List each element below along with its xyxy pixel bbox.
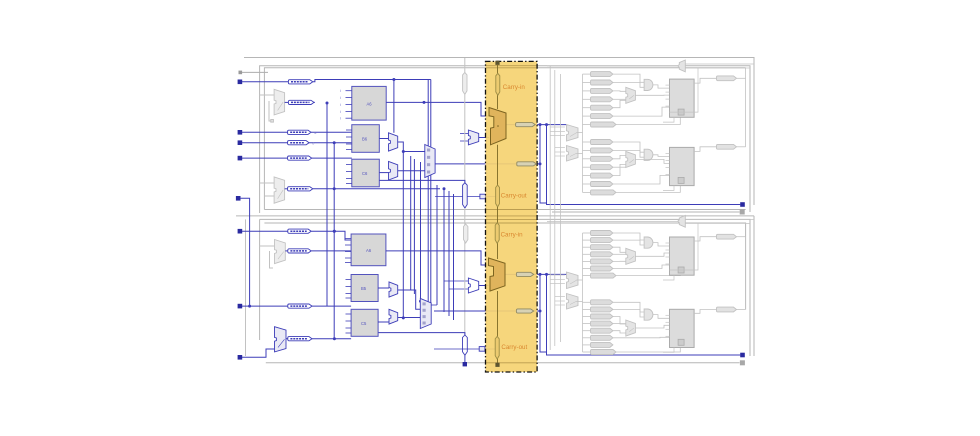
top wire capB0-AND2 [613,142,644,152]
top in capsule B6 [591,190,617,195]
LUT A pin 3 [340,110,352,114]
bottom out capsule 1 [717,234,737,239]
LUT D pin 1 [345,244,351,246]
LUT D pin 2 [345,251,351,253]
gray stub MR2 156 [555,155,565,157]
LUT E pin 2 [346,293,352,295]
top clock drop [670,68,699,113]
vertical net v3b [420,162,422,301]
LUT C O5 wire [379,180,465,182]
bottom in capsule B6 stub [583,344,591,346]
buffer A4 [288,141,310,145]
bottom FF2 pin 2 [666,328,670,330]
carry chain wire seg7 [497,359,499,363]
bottom wire capB5-FF2 [613,336,670,339]
top FF2 bottom stub [663,186,674,191]
wire J3 [242,349,275,357]
input pin I3 [238,140,243,145]
bottom MUX1 out [635,253,669,256]
gray stub MR2b 296.5 [555,296,565,298]
bottom in capsule B0 [591,300,613,305]
gray stub MR2b 301 [555,300,565,302]
top FF2 pin 3 [666,173,670,175]
junction n1 [392,78,395,81]
bottom clock drop [670,223,699,270]
top in capsule B4 stub [583,175,591,177]
bottom in capsule B1 stub [583,308,591,310]
top out capsule 2 wire [737,146,746,148]
vertical net v2 [410,156,412,290]
top FF2 pin 0 [666,152,670,154]
buffer A3 [288,130,311,134]
bottom FF1 pin 0 [666,242,670,244]
input pin I2 [238,130,243,135]
V3 out stub [464,355,466,362]
vertical net v5 [443,189,445,312]
LUT B out wire [379,138,388,140]
LUT F pin 1 [346,320,352,322]
FM1 out wire [479,137,489,139]
top FF2 pin 2 [666,166,670,168]
top input bus vertical [582,74,584,192]
M2 out wire [398,170,425,172]
bottom FDRE flip-flop 1 [670,237,695,275]
bottom FDRE flip-flop 2 [670,309,695,347]
svg-text:a: a [315,131,317,135]
top in capsule A6 stub [583,124,591,126]
right frame vertical c [745,237,747,310]
wire B3 out [312,305,351,307]
bottom FF2 pin 0 [666,314,670,316]
carry-in capsule top [496,73,500,95]
bottom wire capB2-MUX2 [613,317,626,325]
LUT B pin 2 [346,143,352,145]
bottom wire capA0-AND1 [613,233,644,240]
bottom AND gate 1 [644,237,653,248]
gray vertical low [464,208,466,335]
wire I1 [242,81,288,83]
top in capsule B1 stub [583,149,591,151]
input pin I5 [236,196,241,201]
bottom input bus vertical [582,233,584,352]
NL1 select wire [270,251,274,268]
top MUX1 out [635,94,669,96]
vertical net v6 [448,191,450,316]
carry chain wire seg6 [497,291,499,336]
LUT F pin 3 [346,332,352,334]
bottom out capsule 2 [717,307,737,312]
LUT F6LUT label [361,321,367,326]
top in capsule A1 [591,80,613,85]
svg-text:C6: C6 [362,171,368,176]
junction fb1 a [326,102,329,105]
LUT A6LUT [352,86,386,120]
vertical net v4 [436,185,438,305]
svg-text:B6: B6 [362,137,368,142]
LUT C pin 3 [346,183,352,185]
top FF1 clk notch [678,109,684,115]
gray stub into mux ML2a [260,182,275,184]
bottom in capsule B1 [591,307,613,312]
top in capsule A5 [591,114,613,119]
top in capsule B2 [591,156,613,161]
net wire n1 top [313,80,431,82]
bottom in capsule A3 stub [583,253,591,255]
band crossing rail 5 [486,218,538,220]
buffer B2 [288,249,311,253]
LUT C6LUT label [362,171,368,176]
top wire capB6-FF2 [616,186,680,193]
bottom clock out wire 2 [685,222,750,224]
junction F7 join [539,162,542,165]
junction v3b [419,300,422,303]
top in capsule A3 [591,97,613,102]
top in capsule A4 [591,105,613,110]
band crossing rail 1 [486,65,538,67]
LUT E pin 3 [346,297,352,299]
bottom wire capB1-AND2 [613,309,644,317]
svg-text:A6: A6 [367,102,373,107]
top FF1 pin 2 [666,98,670,100]
label Carry-in bottom [501,231,524,238]
bottom in capsule A0 [591,230,613,235]
label Carry-out top [501,193,527,200]
svg-text:Carry-in: Carry-in [503,84,526,91]
top in capsule A5 stub [583,115,591,117]
top wire capB5-FF2 [613,175,670,184]
carry O drop [540,125,547,203]
T1 in wire [435,196,480,198]
top in capsule B0 stub [583,141,591,143]
bottom in capsule A4 stub [583,260,591,262]
band crossing rail 3 [486,209,538,211]
ML1 out wire [285,101,289,103]
bottom in capsule A1 stub [583,239,591,241]
gray stub MR1 131.5 [550,131,565,133]
LUT C6LUT [352,159,380,187]
LUT B pin 1 [346,136,352,138]
bottom route mux MR2 [567,294,579,310]
gray stub MR2 147.5 [555,147,565,149]
top in capsule A4 stub [583,107,591,109]
junction fb2 a [333,141,336,144]
bottom in capsule B6 [591,342,613,347]
pin label b [313,142,315,146]
gray stub into mux ML1 [260,94,275,96]
LUT C pin 0 [346,164,352,166]
gray stub MR1b 279.5 [550,279,565,281]
top MR1 out [576,132,582,134]
LUT F6LUT [351,309,378,336]
svg-text:B5: B5 [361,286,367,291]
right frame vertical a [745,78,747,147]
mux N1 [389,282,398,297]
top AND gate 1 [644,79,653,90]
bottom wire capB3-MUX2 [613,323,626,325]
top in capsule A1 stub [583,82,591,84]
right frame corner segment [745,68,747,79]
carry-out pin bottom [495,363,499,367]
bottom FF2 out wire [694,310,716,314]
wire B4 out [312,338,351,340]
top wire capA2-MUX [613,90,626,92]
wire J1 [242,230,288,232]
vertical net v1 [402,152,404,318]
LUT A pin 1 [340,96,352,100]
carry O capsule top [516,123,536,127]
input pin J1 [238,229,243,234]
top wire capB4-MUX2 [613,164,626,175]
LUT F pin 0 [346,313,352,315]
wire I4 [242,157,288,159]
band crossing rail 7 [486,362,538,364]
wire A3 to LUT [311,131,352,133]
wire A6 long [313,188,440,190]
gray stub MR2b 305 [555,304,565,306]
carry second capsule top [517,162,537,166]
bottom wire capA1-AND1 [613,240,644,245]
long vertical feedback 1 [326,103,328,306]
clk input pin top [239,71,243,75]
bottom in capsule A5 stub [583,268,591,270]
wire A4 to LUT [309,142,352,144]
LUT B6LUT label [362,137,368,142]
carry feed mux FM2 [468,278,478,293]
band crossing rail 4 [486,215,538,217]
bottom FF2 bottom stub [663,348,674,353]
rail out wire B [547,274,741,355]
bottom in capsule B0 stub [583,301,591,303]
bottom FF1 pin 3 [666,263,670,265]
NL2 out wire [286,338,288,340]
top in capsule B3 [591,165,613,170]
top in capsule A0 [591,72,613,77]
tiny box T2 [479,347,485,352]
mux M1 [389,133,398,151]
mux M2 [389,161,398,180]
bottom FF2 clk notch [678,339,684,345]
v6 foot wire [449,288,468,290]
LUT C out wire [379,172,388,174]
top route mux MR2 [567,146,579,162]
N1 out wire [398,290,424,309]
bottom in capsule B3 stub [583,323,591,325]
FM1 in b [460,140,468,142]
buffer A2 [288,100,314,104]
bottom MUX2 out [635,325,669,328]
slice boundary outer top [244,58,754,206]
LUT A pin 4 [340,117,352,121]
LUT B pin 3 [346,149,352,151]
bottom in capsule A2 [591,245,613,250]
CARRY4 block top [489,108,506,145]
svg-text:Carry-out: Carry-out [501,193,527,200]
NL1 out wire [285,250,288,252]
bottom in capsule A4 [591,259,613,264]
gray stub MR1 127 [550,126,565,128]
top sel mux 1 [626,87,636,103]
top wire capA3-MUX [613,98,626,100]
top FF1 out wire [694,78,716,83]
right mid vertical bottom [749,219,751,356]
label Carry-out bottom [501,344,527,351]
LUT D pin 0 [345,238,351,240]
top in capsule B4 [591,173,613,178]
top FF2 clk notch [678,177,684,183]
bottom wire capB4-MUX2 [613,331,626,333]
top out capsule 1 [717,76,737,81]
top AND gate 2 [644,149,653,160]
CARRY4 top dot [497,125,499,127]
divider line 1 [236,215,754,217]
gray dist vertical 2 [554,70,556,346]
top FF1 pin 1 [666,91,670,93]
junction carry B O [539,273,549,276]
blue capsule V3 [463,335,468,355]
top wire capA6-FFclk [616,117,680,124]
bottom MR1 out [576,279,582,281]
bottom clock buf mux [678,215,686,227]
LUT E out wire [378,287,389,289]
top in capsule B1 [591,148,613,153]
LUT C pin 2 [346,178,352,180]
gray capsule V1 [463,72,467,94]
top FF2 pin 1 [666,159,670,161]
output pin O2 [740,353,745,358]
carry chain wire seg3 [497,145,499,185]
svg-text:Carry-out: Carry-out [501,344,527,351]
slice boundary mid top [260,66,750,213]
FM1 in a [460,133,468,135]
bottom AND gate 2 [644,309,653,320]
gray stub into mux ML2b [264,195,274,197]
gray stub MR1 135.5 [550,135,565,137]
mux F7MUX B [420,298,431,328]
FM2 out wire [479,285,489,287]
top in capsule A2 [591,88,613,93]
junction B1 out [333,230,336,233]
junction carry O [539,123,549,126]
LUT D pin 4 [345,262,351,264]
bottom wire capA5-FF [613,265,670,269]
bottom out capsule 1 wire [737,236,746,238]
blue capsule V2 [463,183,468,208]
input pin I1 [238,80,243,85]
junction LUT A out [423,101,426,104]
T1 out wire [486,196,498,198]
buffer B4 [288,337,312,341]
top in capsule A0 stub [583,73,591,75]
bottom clock out wire 1 [685,218,754,220]
T2 out wire [485,348,498,350]
top wire capA1-AND1 [613,83,644,88]
input pin I4 [238,156,243,161]
LUT D out wire [386,251,489,265]
carry-in pin top [495,61,499,65]
bottom wire capA2-MUX [613,247,626,252]
LUT F O5 wire [378,333,465,336]
top wire capA0-AND1 [613,74,644,82]
junction J2 [248,305,251,308]
LUT E6LUT label [361,286,367,291]
junction fb2 c [333,230,336,233]
CARRY4 block bottom [489,258,506,291]
LUT D6LUT label [366,248,372,253]
bottom FF1 bottom stub [663,275,674,280]
ML1 select square [271,120,274,123]
top FDRE flip-flop 1 [670,79,695,117]
mux NL2 [275,327,287,352]
bottom route mux MR1 [567,272,579,289]
buffer A1 [288,80,312,84]
wire B2 out [311,250,351,252]
clk wire top [242,71,268,73]
wire I5 [240,198,250,306]
top in capsule B6 stub [583,191,591,193]
bottom in capsule B7 [591,350,617,355]
slice boundary left bottom [259,219,261,340]
bottom in capsule A0 stub [583,232,591,234]
top FF1 pin 3 [666,105,670,107]
top in capsule A6 [591,122,617,127]
bottom in capsule A5 [591,266,613,271]
top in capsule B5 [591,181,613,186]
mux ML1 [274,89,285,115]
carry chain wire seg4 [497,207,499,223]
bottom in capsule A2 stub [583,246,591,248]
top in capsule B0 [591,139,613,144]
N2 out wire [398,317,424,319]
bottom rail pin [740,360,745,365]
mux N2 [389,309,398,324]
top wire capA4-MUX [613,100,626,107]
right outer vertical bottom [753,216,755,356]
LUT A pin 2 [340,103,352,107]
slice boundary mid bottom [260,219,750,356]
carry chain band border [486,61,538,372]
gray vertical into cap chain [464,58,466,72]
left gray vertical bottom-half [245,219,247,356]
slice boundary inner bottom [264,223,745,310]
gray stub mux NL1 [260,245,275,247]
gray stub MR1b 283.5 [550,283,565,285]
gray stub MR2 152 [555,151,565,153]
LUT B pin 0 [346,129,352,131]
carry-in capsule bottom [495,223,499,244]
top FF1 bottom stub [663,117,674,122]
junction F7B join [539,310,542,313]
LUT E pin 0 [346,279,352,281]
top route mux MR1 [567,125,579,142]
junction v5 [443,187,446,190]
bottom in capsule B5 stub [583,337,591,339]
LUT E pin 1 [346,286,352,288]
input pin J3 [238,355,243,360]
svg-text:b: b [313,142,315,146]
mux F7MUX [425,145,435,178]
junction v1 foot [402,316,405,319]
LUT C pin 1 [346,171,352,173]
junction fb2 b [333,187,336,190]
wire n1 drop to MUXF7 col [428,80,431,308]
bottom FF1 pin 1 [666,249,670,251]
bottom in capsule B3 [591,321,613,326]
top clock buf mux [678,60,686,72]
junction B4 out [333,337,336,340]
mux NL1 [275,240,286,264]
wire B1 out [311,231,351,240]
top sel mux 2 [626,151,636,167]
